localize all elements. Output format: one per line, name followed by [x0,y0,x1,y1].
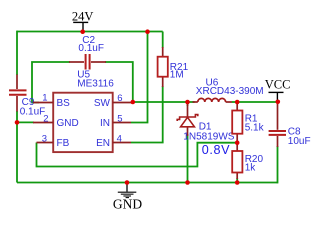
svg-text:EN: EN [96,138,110,149]
wire coil output rail (right of coil) [232,101,278,103]
svg-text:1N5819WS: 1N5819WS [183,132,234,143]
wire 24V top rail [17,31,163,33]
diode D1 1N5819WS (schottky) [187,104,189,136]
pin 1 BS [33,102,53,104]
svg-text:10uF: 10uF [288,136,311,147]
wire C2 right to SW [105,62,133,101]
wire C8 bottom to GND rail [277,146,279,183]
resistor R20 [236,143,238,179]
wire GND bottom rail [17,182,278,184]
ground symbol GND [126,183,128,192]
wire R21 bottom to EN pin4 [131,32,163,143]
svg-text:0.1uF: 0.1uF [20,106,46,117]
svg-text:GND: GND [113,197,142,212]
junction node SW / D1 [185,100,190,105]
svg-text:BS: BS [57,98,71,109]
resistor R21 [162,47,164,87]
wire D1 top branch [187,102,189,106]
wire FB net (pin3 down, across, up to divider) [37,143,237,167]
junction node rail to IN branch [145,29,150,34]
svg-text:3: 3 [42,133,47,144]
inductor U6 XRCD43-390M [193,101,232,103]
svg-text:VCC: VCC [265,78,291,92]
svg-text:4: 4 [117,133,122,144]
IC U5 ME3116 [53,93,112,152]
junction node GND rail / R20 [235,180,240,185]
capacitor C8 [277,103,279,147]
svg-text:1M: 1M [170,70,184,81]
wire R20 bottom to GND rail [236,178,238,183]
svg-text:5: 5 [117,113,122,124]
wire C2 left to BS pin1 [32,62,70,103]
junction node R1/R20/FB [235,140,240,145]
junction node GND rail / D1 [185,180,190,185]
junction node GND rail / GND symbol [125,180,130,185]
svg-text:24V: 24V [72,9,94,23]
svg-text:SW: SW [94,98,111,109]
wire 24V rail to IN pin5 [131,32,148,123]
pin 2 GND [33,122,53,124]
svg-text:5.1k: 5.1k [245,122,265,133]
pin 3 FB [37,142,54,144]
svg-text:GND: GND [57,118,79,129]
power port 24V [73,22,88,31]
junction node L out / R1 [235,100,240,105]
junction node C9 / GND pin2 [15,120,20,125]
wire D1 bottom to GND rail [187,134,189,183]
pin 4 EN [113,142,131,144]
capacitor C9 [16,75,18,112]
svg-text:2: 2 [43,113,48,124]
svg-text:1k: 1k [245,162,257,173]
svg-text:6: 6 [117,93,122,104]
svg-text:0.1uF: 0.1uF [78,43,104,54]
svg-text:IN: IN [100,118,110,129]
wire left vertical (24V to C9 to GND rail) [16,31,18,183]
svg-text:ME3116: ME3116 [77,79,114,90]
wire C9 to GND pin2 [17,121,34,123]
junction node 24V rail / power [80,29,85,34]
svg-text:FB: FB [57,138,70,149]
junction node VCC / C8 [276,100,281,105]
svg-text:XRCD43-390M: XRCD43-390M [196,86,264,97]
capacitor C2 [69,61,106,63]
resistor R1 [236,103,238,142]
pin 6 SW [113,102,133,104]
junction node SW pin / C2 wire [131,100,136,105]
pin 5 IN [113,122,131,124]
svg-text:1: 1 [42,92,47,103]
power port VCC [269,92,284,101]
svg-text:0.8V: 0.8V [202,143,230,157]
wire SW main rail (left of coil) [133,101,195,103]
